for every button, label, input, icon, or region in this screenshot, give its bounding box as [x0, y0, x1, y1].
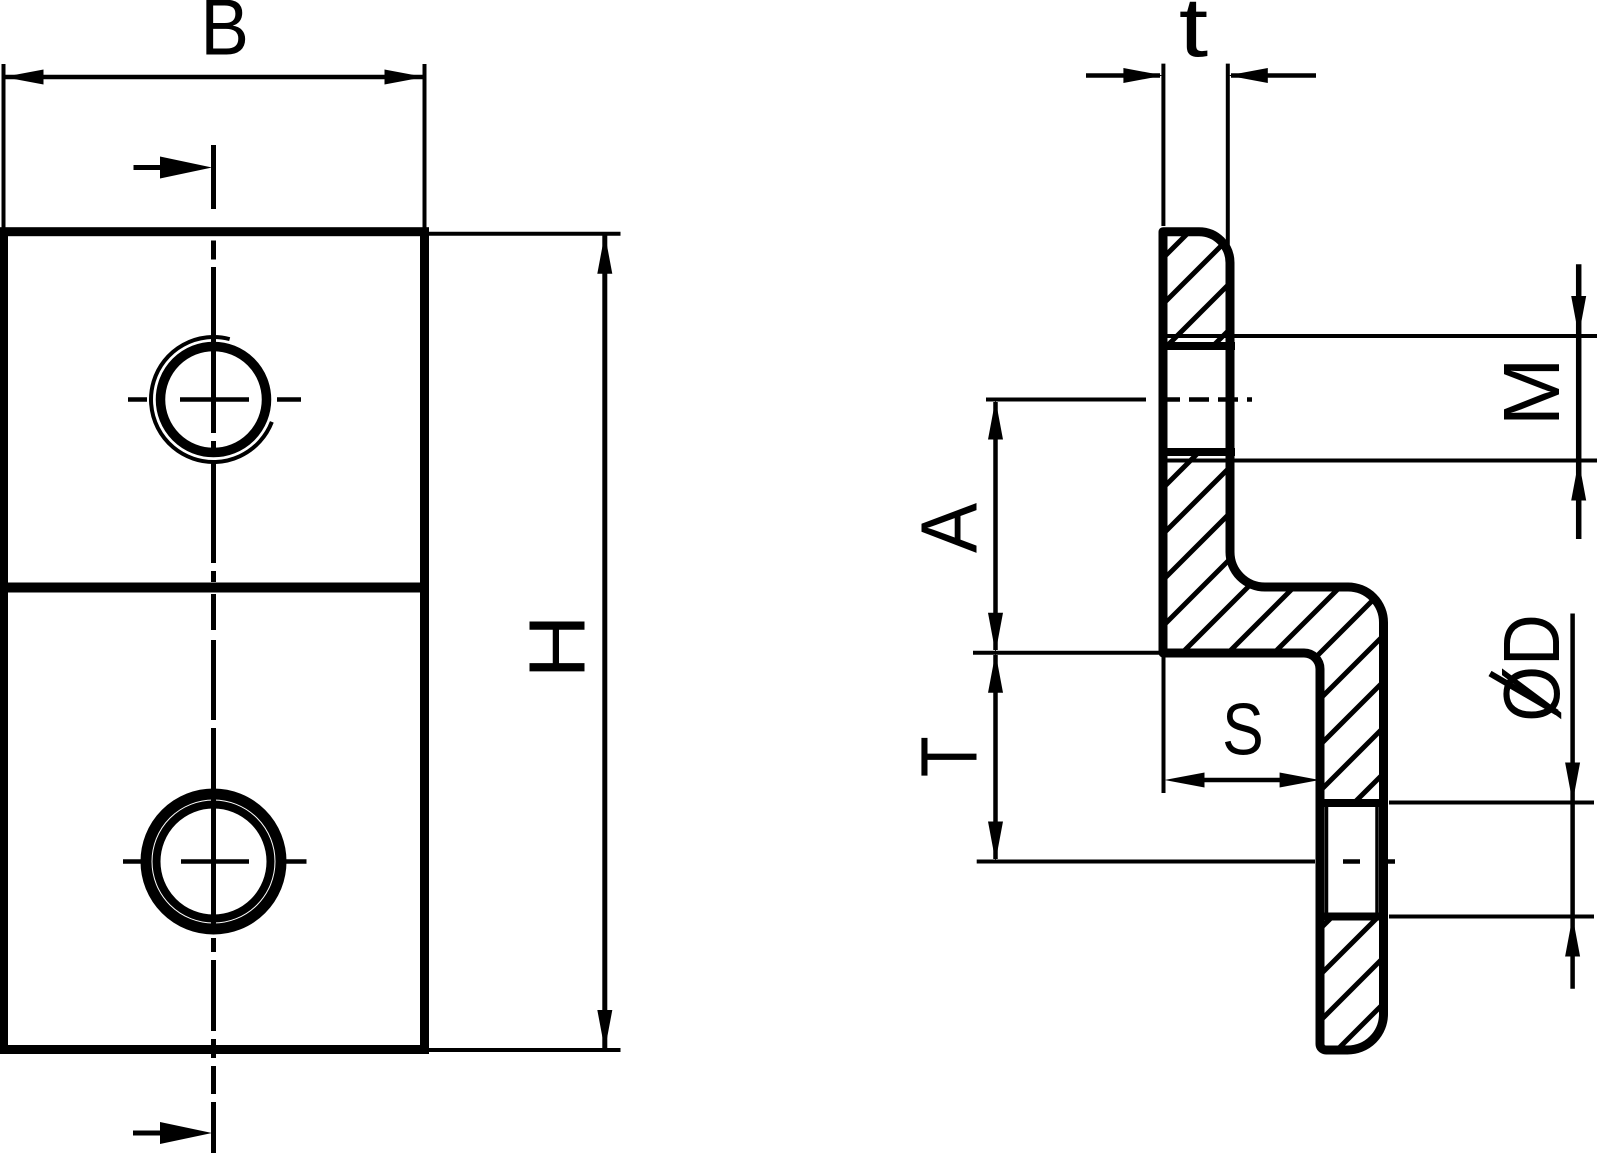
vertical centerline [211, 145, 216, 1153]
plate outline [4, 232, 425, 1050]
svg-text:ØD: ØD [1487, 614, 1576, 722]
hatching of sectioned metal (45 deg) [321, 200, 1600, 1100]
plain hole (bottom), outer circle [146, 794, 281, 929]
bottom hole: thick edge lines [1316, 803, 1388, 917]
svg-text:H: H [512, 614, 602, 679]
top hole horizontal centerline [128, 397, 301, 402]
dimension A extension line (top, at hole axis) [986, 398, 1146, 402]
dimension B extension lines [4, 64, 425, 228]
dimension H line with arrows [602, 235, 607, 1048]
bottom hole centerline dashes [1343, 859, 1395, 864]
dimension t line with arrows (outside) [1086, 73, 1160, 78]
dimension OD extension lines [1389, 803, 1594, 917]
dimension t extension lines [1163, 64, 1227, 253]
threaded hole: major dia thin lines, also M extension lines [1161, 336, 1597, 461]
svg-text:S: S [1222, 690, 1264, 771]
section direction arrow top [134, 157, 213, 179]
bottom hole: inner thin lines [1327, 805, 1378, 915]
dimension M line with outside arrows [1576, 264, 1582, 539]
Z-profile outline [1163, 232, 1384, 1050]
svg-text:M: M [1487, 357, 1577, 426]
fold line (step) [4, 583, 425, 593]
dimension A line with arrows [993, 402, 998, 650]
threaded hole: minor dia thick lines [1159, 346, 1235, 452]
svg-text:B: B [200, 0, 249, 72]
svg-text:A: A [905, 503, 994, 553]
dimension B line with arrows [4, 75, 425, 80]
bottom hole horizontal centerline [123, 859, 307, 864]
dimension OD line with outside arrows [1570, 614, 1575, 989]
threaded hole centerline (dashed) [1160, 397, 1252, 402]
dimension H extension lines [427, 234, 621, 1050]
plain hole (bottom), inner circle [157, 805, 271, 919]
svg-text:T: T [904, 736, 994, 777]
section direction arrow bottom [133, 1122, 212, 1144]
threaded hole (top), minor dia circle [161, 347, 267, 453]
dimension S line with outside-pointing arrows [1202, 778, 1282, 783]
dimension T line with arrows [993, 655, 998, 859]
thread major dia arc (3/4) [151, 337, 272, 462]
dimension T extension line (bottom, at lower hole axis) [977, 860, 1315, 864]
svg-text:t: t [1179, 0, 1208, 75]
S extension line (wall plane extended) [1162, 657, 1166, 793]
dimension A/T shared extension line (at step) [973, 651, 1161, 655]
